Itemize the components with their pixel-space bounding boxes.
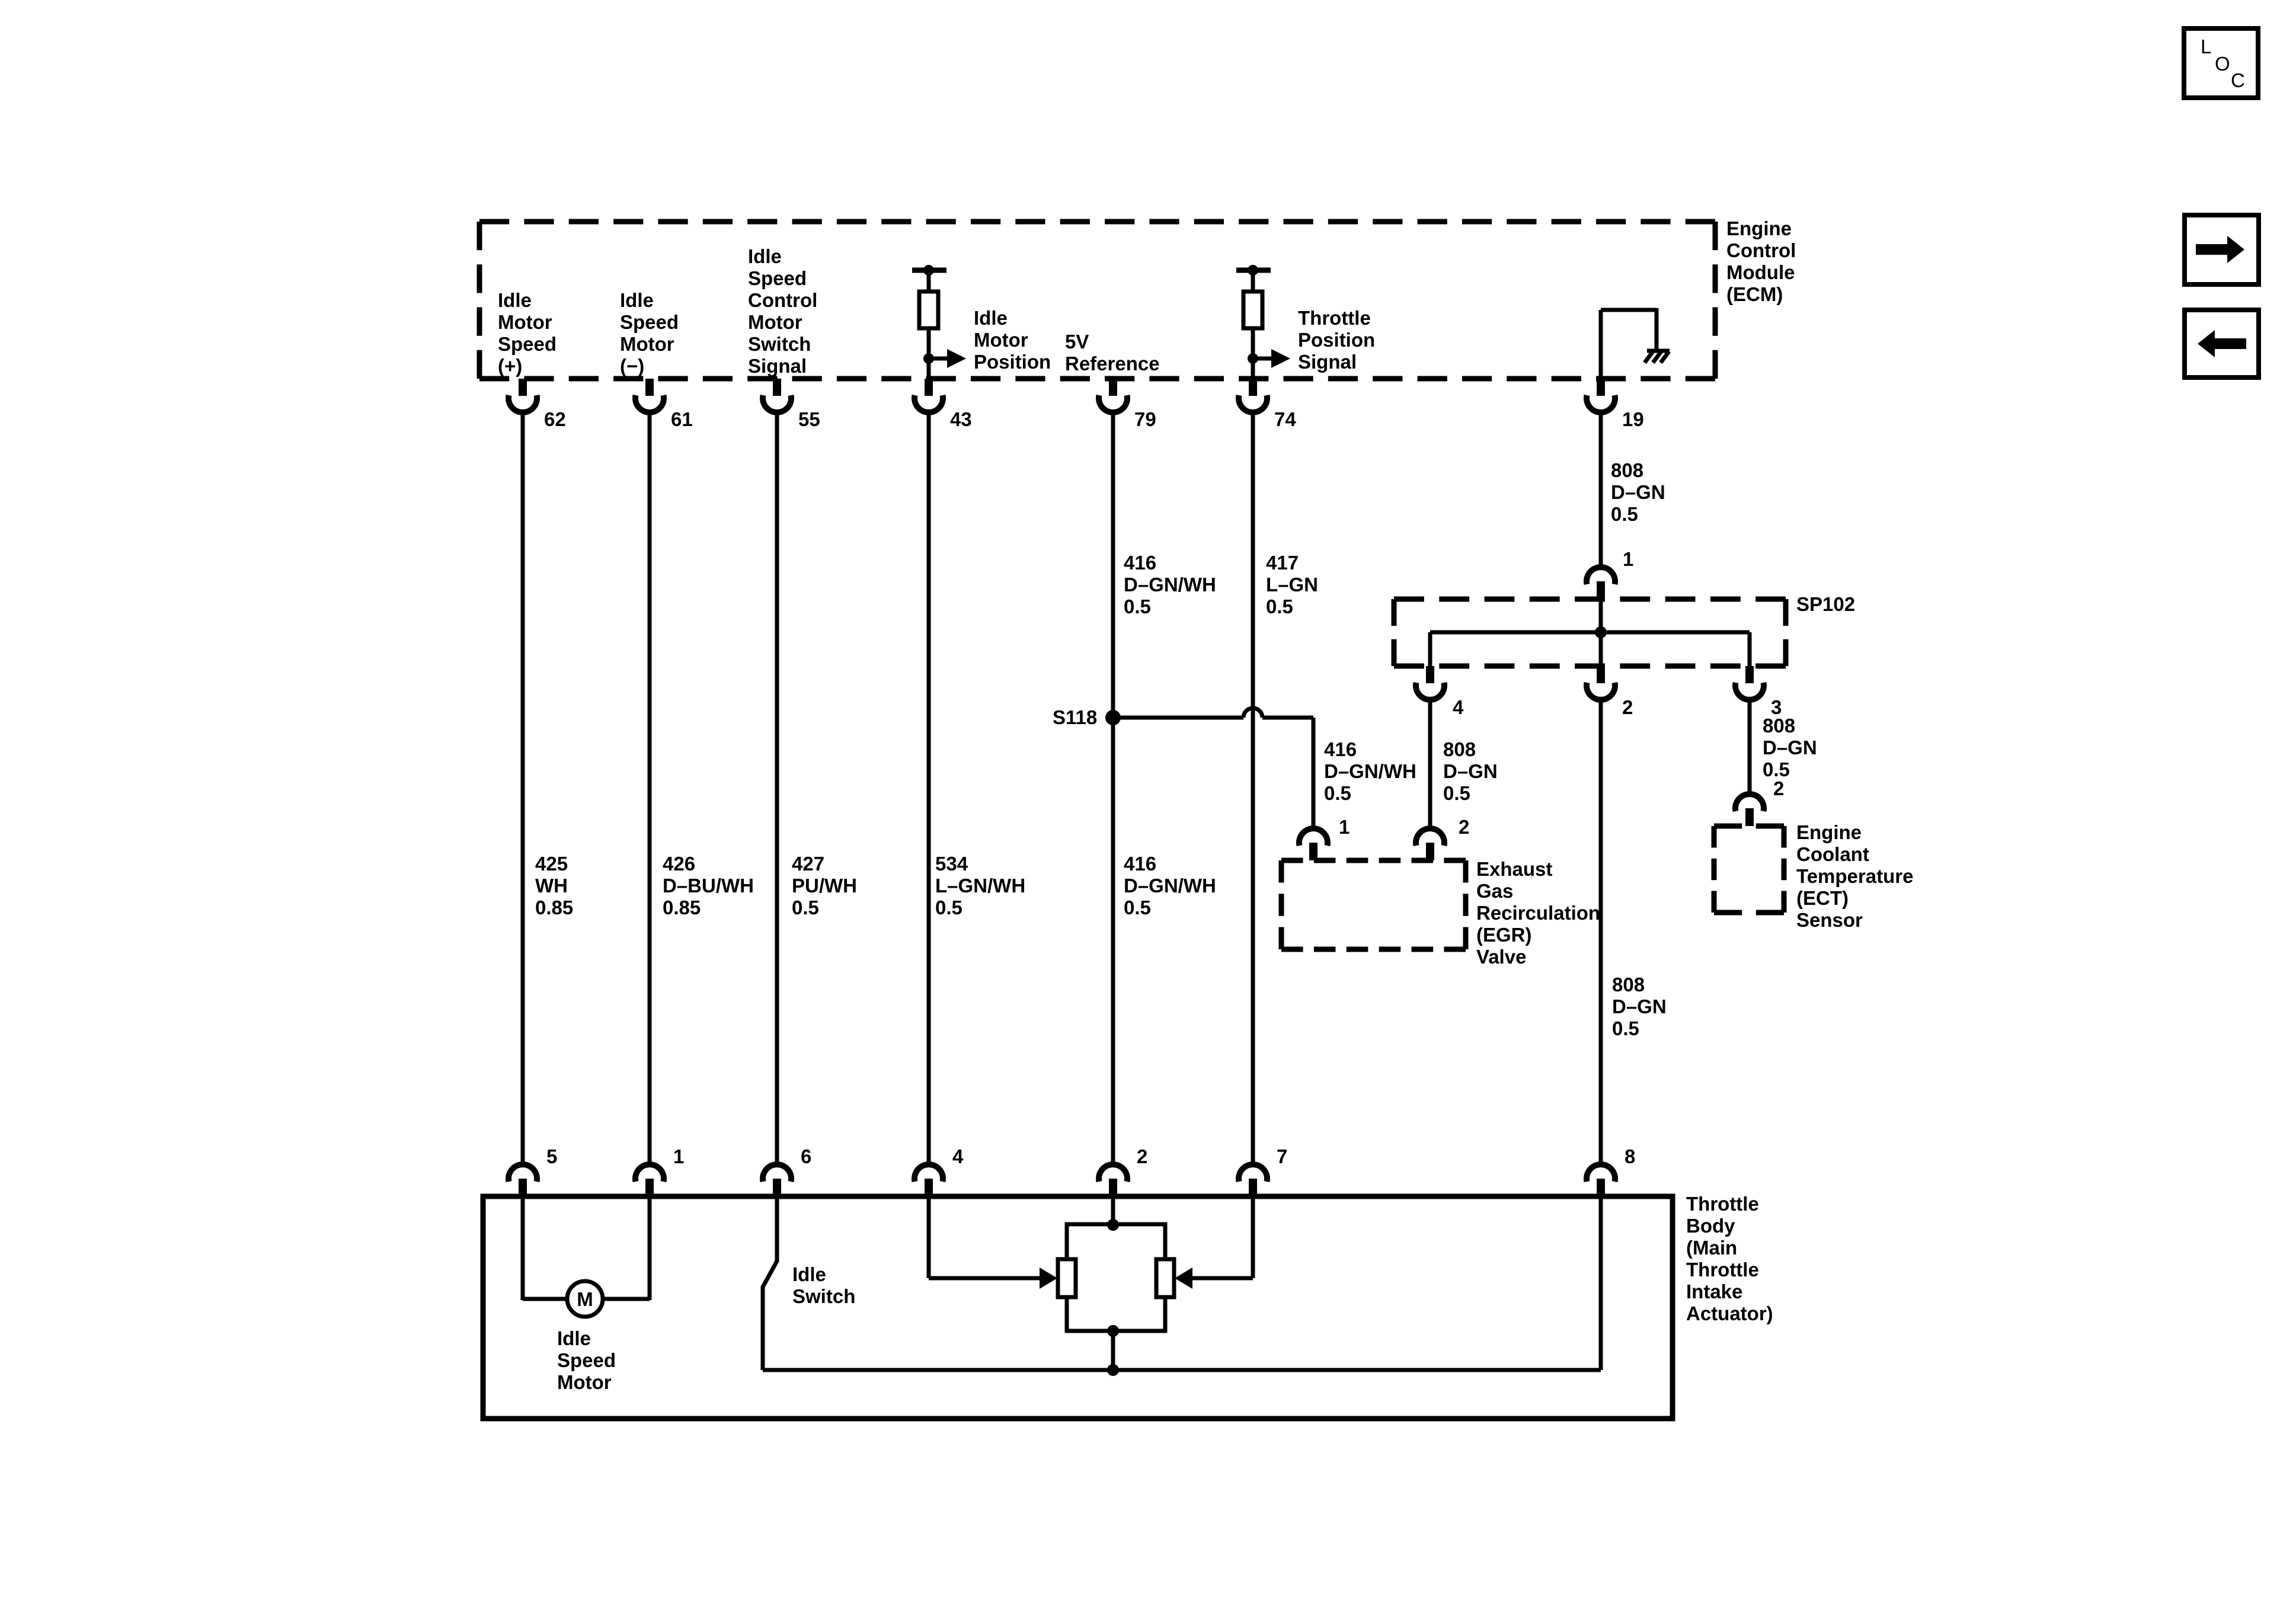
splice pack SP102 dashed box [1394, 599, 1786, 666]
svg-text:74: 74 [1274, 408, 1296, 430]
node idle motor position tap [923, 353, 934, 364]
wire S118 branch horizontal with hop over wire 417 [1113, 708, 1313, 718]
wire pin 7 feed [1192, 1196, 1253, 1278]
node throttle position tap [1248, 353, 1258, 364]
svg-text:O: O [2215, 53, 2230, 75]
label wire 416 EGR branch [1324, 738, 1416, 804]
arrow icon left [2185, 310, 2259, 377]
wire motor right leg [648, 1196, 652, 1300]
ECM pin 61 connector [635, 379, 664, 412]
arrow wiper right [1175, 1267, 1192, 1289]
wire SP102-2 to throttle pin 8 [1599, 699, 1603, 1164]
label wire 808 EGR branch [1443, 738, 1498, 804]
throttle body pin 7 connector [1239, 1164, 1267, 1196]
svg-text:2: 2 [1137, 1145, 1147, 1167]
wire bottom rail [763, 1368, 1601, 1372]
motor M circle (idle speed motor) [567, 1281, 603, 1317]
wire motor right horizontal [603, 1297, 650, 1301]
svg-text:1: 1 [673, 1145, 684, 1167]
label Throttle Position Signal [1298, 307, 1375, 373]
EGR valve dashed box [1281, 860, 1466, 949]
wire 808 D-GN (pin 19 down) [1599, 412, 1603, 567]
svg-text:SP102: SP102 [1796, 593, 1855, 615]
label wire 808 upper [1611, 459, 1665, 525]
wire SP102 right leg [1748, 632, 1752, 666]
svg-text:L: L [2201, 36, 2211, 57]
SP102 pin 4 connector [1416, 666, 1444, 700]
pin 74 label [1274, 408, 1296, 430]
label SP102 pin 2 [1622, 696, 1633, 718]
wire SP102 left leg [1428, 632, 1432, 666]
svg-text:4: 4 [1453, 696, 1464, 718]
SP102 pin 3 connector [1735, 666, 1764, 700]
pin 62 label [544, 408, 566, 430]
wire SP102-4 to EGR pin 2 [1428, 699, 1432, 828]
throttle body pin 1 connector [635, 1164, 664, 1196]
svg-text:425WH0.85: 425WH0.85 [535, 853, 573, 918]
wire pin 2 to bridge [1111, 1196, 1115, 1224]
svg-text:1: 1 [1623, 548, 1633, 570]
label Idle Speed Control Motor Switch Signal [748, 245, 817, 377]
svg-text:1: 1 [1339, 816, 1350, 838]
svg-text:4: 4 [952, 1145, 964, 1167]
SP102 pin 2 connector [1587, 666, 1615, 700]
throttle pin 5 label [546, 1145, 557, 1167]
pin 19 label [1622, 408, 1644, 430]
ECM module dashed outline box [479, 222, 1715, 379]
label Idle Speed Motor [557, 1327, 616, 1393]
node SP102 junction [1595, 626, 1607, 638]
wire S118 branch down to EGR pin 1 [1312, 718, 1316, 828]
label wire 427 [792, 853, 857, 918]
label wire 808 ECT branch [1763, 715, 1817, 780]
connector 1 (above splice pack) [1587, 567, 1615, 599]
node bridge bottom [1107, 1325, 1119, 1337]
throttle body solid box [483, 1196, 1673, 1419]
resistor (throttle position, ECM internal) [1236, 265, 1271, 379]
wire pin 8 internal [1599, 1196, 1603, 1370]
throttle body pin 2 connector [1099, 1164, 1127, 1196]
throttle pin 2 label [1137, 1145, 1147, 1167]
svg-text:S118: S118 [1053, 706, 1097, 728]
throttle pin 4 label [952, 1145, 964, 1167]
wire bridge stem [1111, 1331, 1115, 1370]
resistor (idle motor position, ECM internal) [912, 265, 946, 379]
label wire 808 lower [1612, 974, 1667, 1039]
potentiometer element right [1156, 1259, 1174, 1297]
wire motor left horizontal [523, 1297, 567, 1301]
wire 427 PU/WH (pin 55 to pin 6) [775, 412, 779, 1164]
label Idle Motor Speed (+) [498, 289, 557, 377]
label Idle Motor Position [974, 307, 1051, 373]
svg-text:2: 2 [1773, 777, 1784, 799]
node bridge top [1107, 1219, 1119, 1231]
wire 417 L-GN (pin 74 to pin 7) [1251, 412, 1255, 1164]
svg-text:62: 62 [544, 408, 566, 430]
svg-text:2: 2 [1622, 696, 1633, 718]
label Idle Speed Motor (-) [620, 289, 679, 377]
svg-text:61: 61 [671, 408, 693, 430]
label S118 [1053, 706, 1097, 728]
label 5V Reference [1065, 331, 1160, 375]
node S118 splice [1105, 710, 1121, 725]
label EGR pin 1 [1339, 816, 1350, 838]
label wire 426 [663, 853, 754, 918]
svg-text:C: C [2231, 69, 2245, 91]
svg-text:43: 43 [950, 408, 972, 430]
ECM pin 62 connector [509, 379, 537, 412]
throttle body pin 4 connector [914, 1164, 943, 1196]
throttle pin 6 label [801, 1145, 811, 1167]
wire 425 WH (pin 62 to pin 5) [521, 412, 525, 1164]
throttle pin 7 label [1277, 1145, 1287, 1167]
svg-text:19: 19 [1622, 408, 1644, 430]
wire 416 D-GN/WH (pin 79 to pin 2) [1111, 412, 1115, 1164]
label wire 425 [535, 853, 573, 918]
wire SP102-3 to ECT sensor [1748, 699, 1752, 794]
label SP102 pin 4 [1453, 696, 1464, 718]
pin 79 label [1134, 408, 1156, 430]
throttle body pin 6 connector [763, 1164, 791, 1196]
svg-text:7: 7 [1277, 1145, 1287, 1167]
label throttle body [1686, 1193, 1773, 1324]
label ECT sensor [1796, 821, 1913, 931]
label SP102 pin 3 [1771, 696, 1782, 718]
potentiometer element left [1058, 1259, 1076, 1297]
wire ECM ground drop [1655, 308, 1659, 351]
svg-text:8: 8 [1625, 1145, 1635, 1167]
label connector 1 [1623, 548, 1633, 570]
svg-text:55: 55 [798, 408, 820, 430]
svg-text:79: 79 [1134, 408, 1156, 430]
throttle pin 1 label [673, 1145, 684, 1167]
ECM pin 55 connector [763, 379, 791, 412]
wire SP102 vertical center [1599, 599, 1603, 666]
wire motor left leg [521, 1196, 525, 1300]
throttle body pin 5 connector [509, 1164, 537, 1196]
wire pin 4 feed [929, 1196, 1040, 1278]
EGR pin 1 connector [1299, 828, 1328, 860]
wire 534 L-GN/WH (pin 43 to pin 4) [927, 412, 931, 1164]
ECM pin 19 connector [1587, 379, 1615, 412]
label SP102 [1796, 593, 1855, 615]
label wire 534 [935, 853, 1025, 918]
label wire 416 upper [1124, 552, 1216, 617]
wire SP102 internal bus [1430, 630, 1750, 635]
pin 43 label [950, 408, 972, 430]
svg-text:5: 5 [546, 1145, 557, 1167]
arrow wiper left [1040, 1267, 1057, 1289]
arrow icon right [2185, 215, 2259, 284]
label Idle Switch [792, 1263, 855, 1307]
ground symbol (ECM internal) [1645, 351, 1670, 363]
idle switch blade [763, 1196, 777, 1370]
LOC reference box [2184, 28, 2258, 98]
svg-text:6: 6 [801, 1145, 811, 1167]
node rail junction [1107, 1364, 1119, 1376]
throttle body pin 8 connector [1587, 1164, 1615, 1196]
label wire 416 lower [1124, 853, 1216, 918]
label EGR pin 2 [1459, 816, 1469, 838]
ECT sensor dashed box [1714, 826, 1784, 913]
throttle pin 8 label [1625, 1145, 1635, 1167]
wire ECM ground vertical [1599, 310, 1603, 379]
label wire 417 [1266, 552, 1318, 617]
wire 426 D-BU/WH (pin 61 to pin 1) [648, 412, 652, 1164]
svg-text:2: 2 [1459, 816, 1469, 838]
ECM name label [1726, 217, 1796, 305]
ECT pin 2 connector [1735, 794, 1764, 826]
wire ECM ground horizontal [1601, 308, 1657, 312]
ECM pin 79 connector [1099, 379, 1127, 412]
arrow idle motor position signal [929, 349, 966, 368]
pin 61 label [671, 408, 693, 430]
label ECT pin 2 [1773, 777, 1784, 799]
EGR pin 2 connector [1416, 828, 1444, 860]
pin 55 label [798, 408, 820, 430]
ECM pin 74 connector [1239, 379, 1267, 412]
svg-text:M: M [577, 1288, 593, 1310]
label EGR valve [1476, 858, 1600, 968]
ECM pin 43 connector [914, 379, 943, 412]
arrow throttle position signal [1253, 349, 1290, 368]
bridge outline (throttle position sensor) [1067, 1224, 1165, 1331]
